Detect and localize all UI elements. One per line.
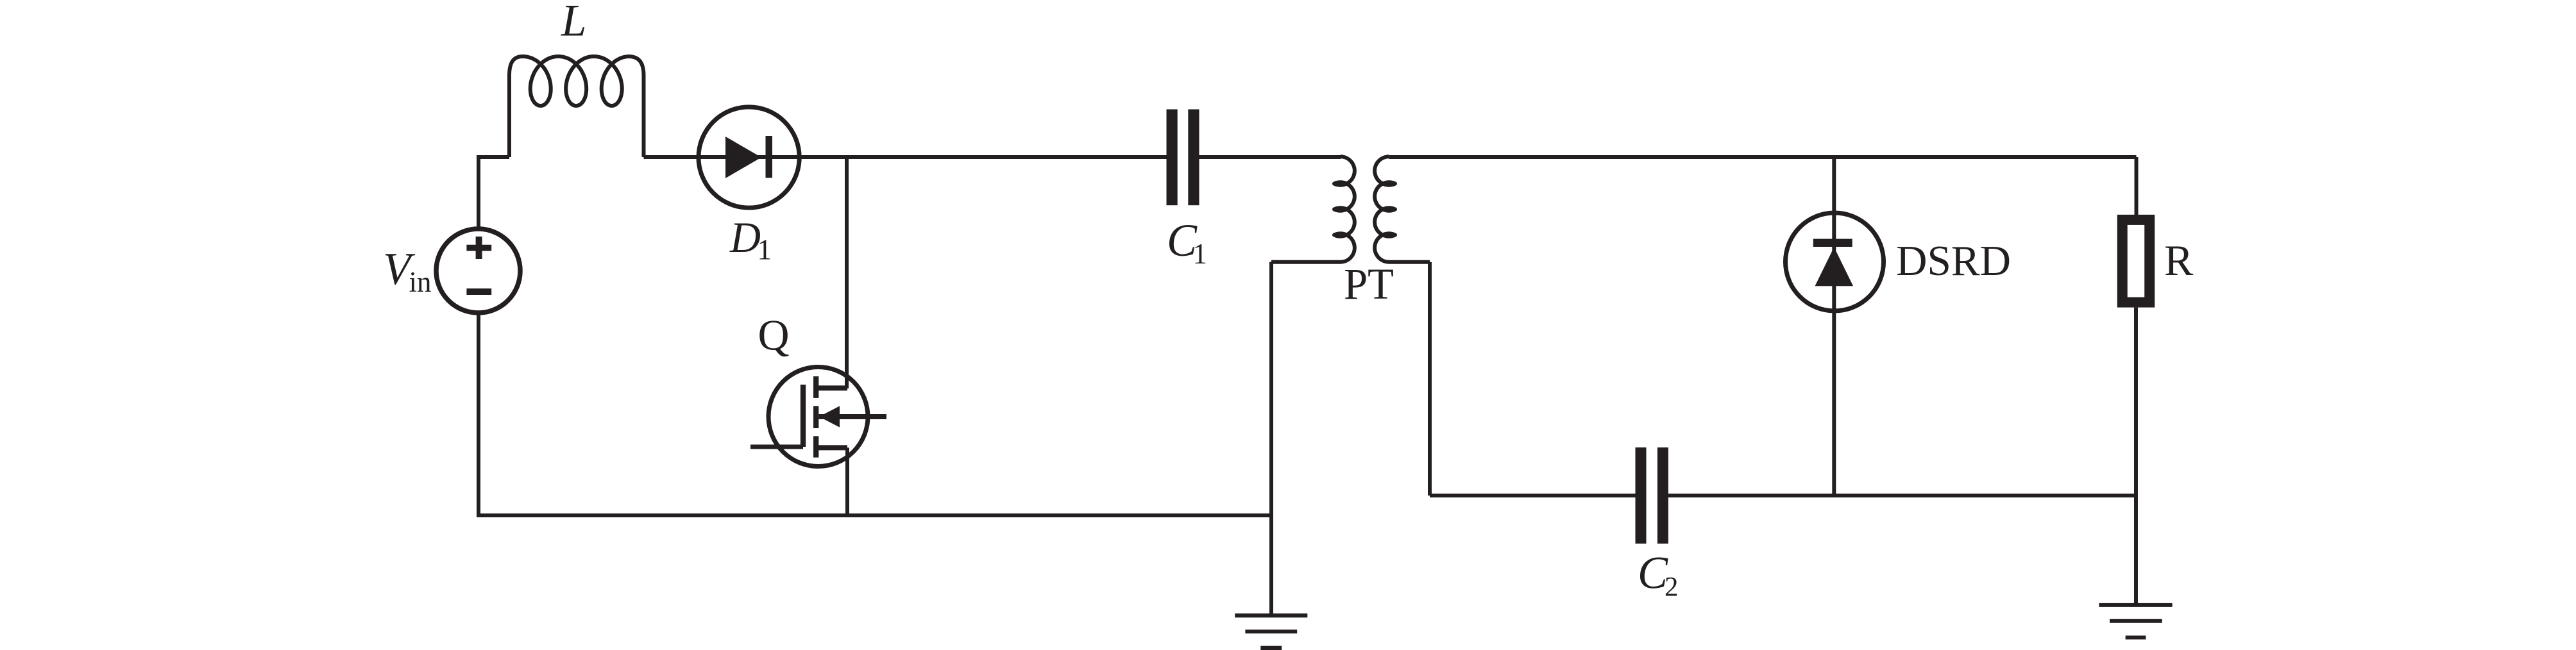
capacitor C1 [1167, 110, 1199, 206]
svg-text:1: 1 [1193, 238, 1208, 270]
mosfet Q [750, 367, 886, 467]
wire D1 to capacitor C1 (junction at x=1320) [799, 155, 1167, 159]
svg-text:PT: PT [1344, 260, 1394, 308]
wire MOSFET source to bottom rail [845, 447, 849, 515]
svg-text:D: D [729, 213, 761, 262]
wire Vin bottom lead and bottom rail to ground junction [479, 312, 1271, 515]
wire secondary bottom down to right rail [1428, 262, 1432, 496]
wire C1 to transformer primary [1199, 155, 1341, 159]
wire right rail left segment to C2 [1430, 494, 1636, 497]
wire inductor to diode D1 [644, 155, 701, 159]
svg-text:2: 2 [1665, 572, 1679, 603]
ground (right, under R) [2099, 605, 2172, 638]
diode DSRD [1786, 213, 1884, 311]
svg-text:Q: Q [758, 311, 790, 360]
diode D1 [699, 107, 799, 208]
wire Vin top lead and jog to inductor [479, 157, 509, 228]
capacitor C2 [1636, 447, 1668, 544]
voltage source Vin [436, 229, 520, 313]
svg-text:in: in [409, 266, 432, 298]
svg-text:R: R [2164, 236, 2194, 285]
wire drain drop from top wire to MOSFET [845, 157, 849, 388]
svg-text:DSRD: DSRD [1896, 237, 2011, 285]
wire secondary top to right corner (junction at DSRD x=2859.3) [1389, 155, 2136, 159]
wire R bottom lead through rail junction to ground [2134, 308, 2138, 603]
wire R top lead from top wire corner [2135, 157, 2139, 215]
wire right rail from C2 to resistor R bottom junction [1668, 494, 2136, 497]
wire primary return down to ground [1269, 262, 1273, 613]
ground (left, under transformer) [1235, 615, 1307, 648]
resistor R [2123, 220, 2150, 303]
svg-text:1: 1 [758, 234, 772, 266]
transformer PT secondary winding [1375, 156, 1430, 262]
transformer PT primary winding [1271, 156, 1355, 262]
wire DSRD top lead from top wire [1832, 157, 1836, 496]
svg-text:L: L [561, 0, 587, 46]
inductor L [509, 56, 644, 157]
svg-text:C: C [1638, 547, 1668, 599]
